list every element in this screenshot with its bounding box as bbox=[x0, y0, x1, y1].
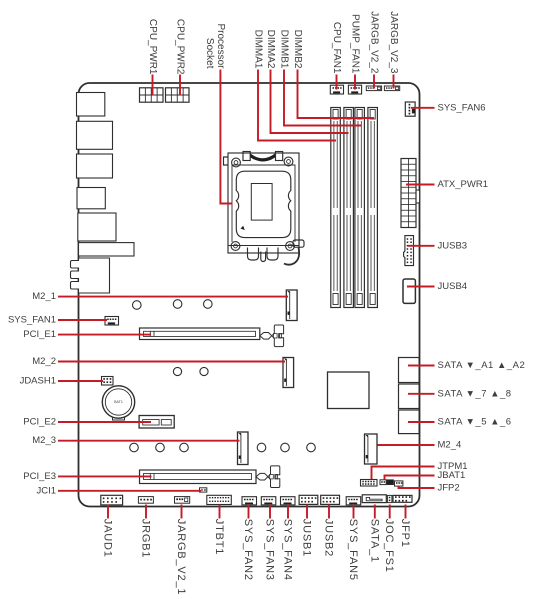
leader line JARGB_V2_2 bbox=[373, 75, 375, 89]
leader line SATA_A1_A2 bbox=[408, 365, 435, 367]
connector CPU_PWR1 bbox=[140, 88, 164, 102]
svg-text:M2_3: M2_3 bbox=[32, 435, 56, 446]
svg-text:JFP2: JFP2 bbox=[438, 483, 460, 494]
header JTPM1 bbox=[361, 480, 378, 487]
connector SYS_FAN3 bbox=[261, 497, 276, 505]
leader line JUSB4 bbox=[407, 286, 435, 288]
rear I/O port block 1 bbox=[77, 93, 105, 117]
header JTBT1 bbox=[207, 495, 232, 504]
DIMM slot B1 bbox=[355, 108, 365, 308]
svg-text:SYS_FAN4: SYS_FAN4 bbox=[282, 519, 294, 581]
connector JARGB_V2_2 bbox=[366, 86, 381, 91]
header JFP1 bbox=[393, 495, 412, 502]
DIMM slot B2 bbox=[368, 108, 378, 308]
svg-text:JFP1: JFP1 bbox=[399, 519, 411, 548]
svg-text:JARGB_V2_1: JARGB_V2_1 bbox=[175, 519, 187, 595]
svg-text:JARGB_V2_2: JARGB_V2_2 bbox=[369, 11, 380, 74]
battery BAT1 bbox=[113, 415, 125, 421]
leader line M2_1 bbox=[58, 296, 288, 298]
leader line M2_4 bbox=[378, 444, 435, 446]
leader line Processor Socket bbox=[220, 70, 232, 204]
connector M2_1 bbox=[286, 290, 297, 321]
connector SYS_FAN2 bbox=[242, 497, 257, 505]
leader line JFP2 bbox=[399, 486, 435, 488]
rear I/O port block 2 bbox=[77, 121, 113, 149]
leader line JUSB1 bbox=[306, 505, 308, 519]
DIMM slot A1 bbox=[331, 108, 341, 308]
connector SYS_FAN6 bbox=[405, 102, 415, 116]
svg-text:JUSB3: JUSB3 bbox=[438, 240, 468, 251]
connector SYS_FAN4 bbox=[281, 497, 296, 505]
connector SYS_FAN5 bbox=[346, 497, 361, 505]
connector JUSB4 bbox=[403, 279, 415, 303]
svg-text:ATX_PWR1: ATX_PWR1 bbox=[438, 179, 489, 190]
svg-text:SATA ▼_A1 ▲_A2: SATA ▼_A1 ▲_A2 bbox=[438, 360, 526, 371]
svg-text:M2_4: M2_4 bbox=[438, 440, 462, 451]
leader line SATA_5_6 bbox=[408, 421, 435, 423]
svg-text:JDASH1: JDASH1 bbox=[20, 376, 56, 387]
svg-text:SYS_FAN2: SYS_FAN2 bbox=[242, 519, 254, 581]
leader line JUSB3 bbox=[408, 245, 435, 247]
header JUSB2 bbox=[321, 495, 340, 504]
leader line JOC_FS1 bbox=[389, 505, 391, 519]
leader line SYS_FAN4 bbox=[287, 505, 289, 519]
svg-text:DIMMA2: DIMMA2 bbox=[265, 30, 276, 69]
svg-text:SYS_FAN5: SYS_FAN5 bbox=[347, 519, 359, 581]
chipset bbox=[328, 372, 370, 409]
connector SATA_5_6 bbox=[399, 410, 420, 434]
leader line DIMMB2 bbox=[298, 70, 375, 119]
connector M2_2 bbox=[283, 358, 294, 388]
svg-text:SYS_FAN1: SYS_FAN1 bbox=[8, 315, 56, 326]
DIMM slot A2 bbox=[344, 108, 354, 308]
mounting holes row 2 bbox=[173, 367, 181, 375]
leader line SATA_1 bbox=[374, 505, 376, 519]
svg-text:JRGB1: JRGB1 bbox=[140, 519, 152, 558]
svg-text:SATA ▼_5 ▲_6: SATA ▼_5 ▲_6 bbox=[438, 417, 512, 428]
rear I/O audio jacks block bbox=[71, 258, 110, 293]
svg-text:JARGB_V2_3: JARGB_V2_3 bbox=[388, 11, 399, 74]
PCI_E1 latch bbox=[260, 333, 272, 340]
rear I/O port block 3 bbox=[77, 154, 113, 178]
leader line SYS_FAN3 bbox=[269, 505, 271, 519]
svg-text:CPU_PWR2: CPU_PWR2 bbox=[175, 19, 186, 75]
jumper JBAT1 bbox=[380, 480, 386, 485]
CPU processor socket U1 bbox=[224, 152, 305, 265]
leader line JTBT1 bbox=[219, 505, 221, 519]
PCI_E3 latch bbox=[256, 473, 268, 480]
PCI_E1 slot bbox=[140, 328, 260, 340]
leader line JTPM1 bbox=[372, 467, 435, 480]
svg-text:JBAT1: JBAT1 bbox=[438, 470, 466, 481]
svg-text:PCI_E2: PCI_E2 bbox=[23, 417, 56, 428]
leader line JUSB2 bbox=[328, 505, 330, 519]
connector JUSB3 bbox=[404, 236, 414, 266]
connector M2_4 bbox=[365, 434, 378, 464]
svg-text:JUSB1: JUSB1 bbox=[301, 519, 313, 557]
header JCI1 bbox=[200, 488, 207, 492]
leader line M2_2 bbox=[58, 361, 285, 363]
svg-text:SYS_FAN3: SYS_FAN3 bbox=[264, 519, 276, 581]
leader line PUMP_FAN1 bbox=[354, 75, 356, 90]
leader line CPU_PWR1 bbox=[152, 75, 154, 96]
svg-text:Processor: Processor bbox=[215, 23, 226, 69]
connector ATX_PWR1 (24-pin) bbox=[415, 190, 419, 203]
leader line JDASH1 bbox=[58, 380, 103, 382]
leader line SYS_FAN2 bbox=[248, 505, 250, 519]
svg-text:SATA_1: SATA_1 bbox=[368, 519, 380, 563]
leader line SATA_7_8 bbox=[408, 393, 435, 395]
board outline bbox=[79, 83, 420, 507]
leader line DIMMA2 bbox=[271, 70, 349, 134]
header JFP2 bbox=[395, 481, 403, 486]
svg-text:DIMMA1: DIMMA1 bbox=[253, 30, 264, 69]
leader line JRGB1 bbox=[145, 505, 147, 519]
leader line CPU_PWR2 bbox=[179, 75, 181, 96]
rear I/O port block 4 bbox=[77, 188, 105, 209]
leader line JAUD1 bbox=[107, 505, 109, 519]
svg-text:CPU_FAN1: CPU_FAN1 bbox=[331, 22, 342, 74]
connector M2_3 bbox=[238, 432, 249, 465]
connector CPU_FAN1 bbox=[330, 85, 343, 94]
svg-text:PUMP_FAN1: PUMP_FAN1 bbox=[350, 14, 361, 74]
svg-text:CPU_PWR1: CPU_PWR1 bbox=[147, 19, 158, 75]
leader line JARGB_V2_1 bbox=[181, 505, 183, 519]
header JOC_FS1 bbox=[387, 495, 392, 502]
leader line ATX_PWR1 bbox=[406, 184, 435, 186]
PCI_E2 slot bbox=[139, 416, 174, 429]
leader line PCI_E1 bbox=[58, 334, 151, 336]
svg-text:BAT1: BAT1 bbox=[114, 400, 123, 404]
leader line DIMMB1 bbox=[284, 70, 361, 126]
svg-text:PCI_E3: PCI_E3 bbox=[23, 471, 56, 482]
leader line SYS_FAN5 bbox=[353, 505, 355, 519]
rear I/O port block 6 bbox=[79, 243, 135, 256]
connector JARGB_V2_3 bbox=[384, 86, 399, 91]
connector SYS_FAN1 bbox=[105, 317, 119, 326]
leader line PCI_E3 bbox=[58, 475, 152, 477]
connector SATA_1 bbox=[362, 495, 386, 503]
connector SATA_A1_A2 bbox=[399, 358, 420, 383]
svg-text:JOC_FS1: JOC_FS1 bbox=[383, 519, 395, 573]
connector SATA_7_8 bbox=[399, 384, 420, 409]
svg-text:SATA ▼_7 ▲_8: SATA ▼_7 ▲_8 bbox=[438, 388, 512, 399]
header JAUD1 bbox=[101, 495, 123, 505]
svg-text:PCI_E1: PCI_E1 bbox=[23, 329, 56, 340]
svg-text:M2_1: M2_1 bbox=[32, 291, 56, 302]
leader line CPU_FAN1 bbox=[336, 75, 338, 90]
leader line JARGB_V2_3 bbox=[393, 75, 395, 89]
mounting holes row 1 bbox=[133, 301, 142, 310]
leader line SYS_FAN1 bbox=[58, 319, 107, 321]
svg-text:M2_2: M2_2 bbox=[32, 356, 56, 367]
connector CPU_PWR2 bbox=[166, 88, 190, 102]
leader line SYS_FAN6 bbox=[411, 107, 435, 109]
header JUSB1 bbox=[299, 495, 318, 504]
svg-text:JUSB4: JUSB4 bbox=[438, 281, 468, 292]
leader line JFP1 bbox=[405, 505, 407, 519]
svg-text:JCI1: JCI1 bbox=[36, 485, 56, 496]
leader line JCI1 bbox=[58, 490, 201, 492]
leader line M2_3 bbox=[58, 440, 240, 442]
leader line PCI_E2 bbox=[58, 421, 151, 423]
leader line JBAT1 bbox=[385, 476, 435, 480]
svg-text:DIMMB1: DIMMB1 bbox=[279, 30, 290, 69]
svg-text:Socket: Socket bbox=[204, 38, 215, 69]
rear I/O port block 5 bbox=[78, 213, 116, 241]
header JARGB_V2_1 bbox=[175, 497, 190, 504]
svg-text:JAUD1: JAUD1 bbox=[102, 519, 114, 558]
leader line DIMMA1 bbox=[258, 70, 336, 141]
mounting holes row 3 bbox=[130, 443, 139, 452]
header JRGB1 bbox=[138, 497, 153, 504]
PCI_E3 slot bbox=[140, 470, 257, 484]
svg-text:DIMMB2: DIMMB2 bbox=[292, 30, 303, 69]
header JDASH1 bbox=[102, 377, 114, 386]
svg-text:SYS_FAN6: SYS_FAN6 bbox=[438, 102, 486, 113]
svg-text:JUSB2: JUSB2 bbox=[323, 519, 335, 557]
connector PUMP_FAN1 bbox=[348, 85, 361, 94]
svg-text:JTBT1: JTBT1 bbox=[213, 519, 225, 555]
